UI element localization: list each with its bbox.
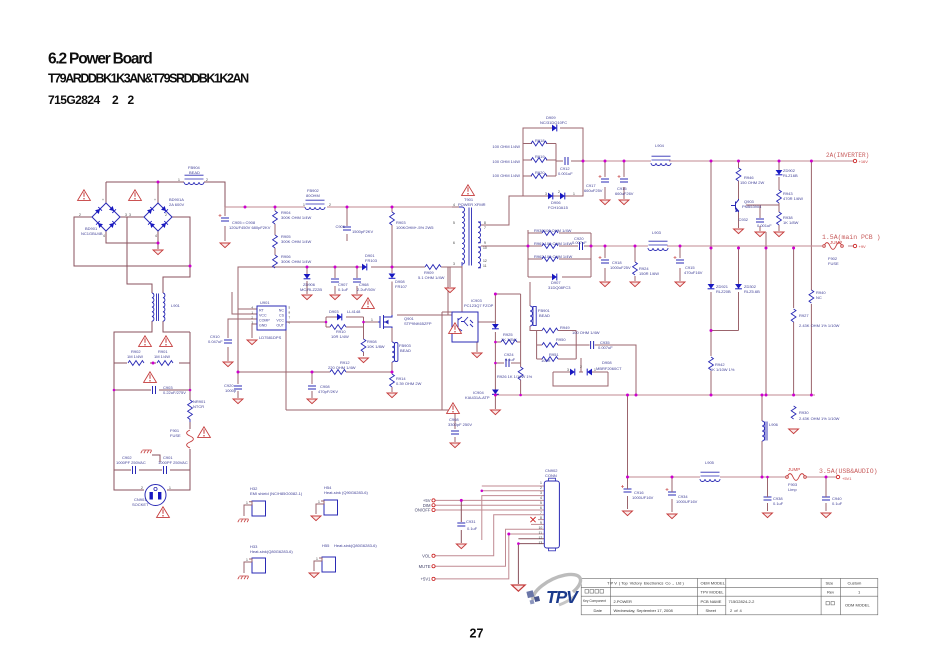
svg-text:2: 2 — [128, 93, 135, 107]
svg-text:220 OHM 1/4W: 220 OHM 1/4W — [328, 365, 356, 370]
svg-text:L901: L901 — [171, 303, 181, 308]
svg-text:TPV: TPV — [546, 587, 579, 607]
svg-text:+16V: +16V — [859, 159, 869, 164]
svg-text:BEAD: BEAD — [400, 348, 411, 353]
svg-text:5: 5 — [453, 221, 455, 225]
svg-text:U901: U901 — [260, 300, 270, 305]
svg-text:JUMP: JUMP — [830, 240, 842, 245]
svg-text:STP9NK65ZFP: STP9NK65ZFP — [404, 321, 432, 326]
svg-text:R950: R950 — [556, 337, 566, 342]
svg-text:ON/OFF: ON/OFF — [415, 508, 431, 513]
svg-text:1000PF 250VAC: 1000PF 250VAC — [158, 460, 188, 465]
svg-text:RLZ20B: RLZ20B — [716, 289, 731, 294]
svg-text:0.1uF: 0.1uF — [773, 501, 784, 506]
svg-text:PCB NAME: PCB NAME — [701, 599, 722, 604]
svg-text:4: 4 — [540, 496, 542, 500]
svg-text:3: 3 — [125, 213, 127, 217]
svg-text:POWER XFMR: POWER XFMR — [458, 202, 486, 207]
svg-text:3: 3 — [129, 213, 131, 217]
svg-text:R930: R930 — [799, 410, 809, 415]
svg-text:FUSE: FUSE — [828, 261, 839, 266]
svg-text:Size: Size — [826, 581, 835, 586]
svg-text:2: 2 — [112, 93, 119, 107]
svg-text:300K OHM 1/4W: 300K OHM 1/4W — [281, 215, 311, 220]
svg-text:FR103: FR103 — [365, 258, 378, 263]
svg-text:Heat-sink (Q90G6283-6): Heat-sink (Q90G6283-6) — [324, 490, 368, 495]
svg-text:4: 4 — [453, 203, 455, 207]
svg-text:T P V ( Top Victory Electronic: T P V ( Top Victory Electronics Co ., Lt… — [607, 581, 685, 586]
svg-text:+: + — [102, 198, 104, 202]
svg-text:T79ARDDBK1K3AN&T79SRDDBK1K2AN: T79ARDDBK1K3AN&T79SRDDBK1K2AN — [48, 72, 249, 86]
svg-text:SOCKET: SOCKET — [132, 502, 149, 507]
svg-text:NC/31DQ10FC: NC/31DQ10FC — [540, 120, 567, 125]
svg-text:1: 1 — [573, 192, 575, 196]
svg-text:1: 1 — [169, 486, 171, 490]
svg-text:6: 6 — [540, 506, 542, 510]
svg-text:100 OHM 1/4W: 100 OHM 1/4W — [572, 330, 600, 335]
svg-text:FUSE: FUSE — [170, 433, 181, 438]
svg-text:3: 3 — [567, 368, 569, 372]
svg-text:2: 2 — [141, 486, 143, 490]
svg-text:Heat-sink(Q80G6283-6): Heat-sink(Q80G6283-6) — [334, 543, 377, 548]
svg-text:Heat-sink(Q80G6283-6): Heat-sink(Q80G6283-6) — [250, 549, 293, 554]
svg-text:150R 1/6W: 150R 1/6W — [639, 271, 659, 276]
svg-text:R938 100 OHM 1/4W: R938 100 OHM 1/4W — [534, 228, 572, 233]
svg-text:2 of 4: 2 of 4 — [730, 608, 743, 613]
svg-text:Rev: Rev — [827, 590, 834, 595]
svg-text:7: 7 — [484, 226, 486, 230]
svg-text:3: 3 — [540, 491, 542, 495]
svg-text:1M 1/4W: 1M 1/4W — [127, 354, 143, 359]
svg-text:2.43K OHM 1% 1/10W: 2.43K OHM 1% 1/10W — [799, 416, 840, 421]
svg-text:10R 1/4W: 10R 1/4W — [331, 334, 349, 339]
svg-text:100KOHM+-5% 2W5: 100KOHM+-5% 2W5 — [396, 225, 434, 230]
svg-text:PC123Q7 FZOP: PC123Q7 FZOP — [464, 303, 494, 308]
svg-text:+5V1: +5V1 — [842, 476, 852, 481]
svg-text:Sheet: Sheet — [706, 608, 717, 613]
svg-text:3300pF 250V: 3300pF 250V — [448, 422, 472, 427]
svg-text:FR107: FR107 — [395, 284, 408, 289]
svg-text:1000UF16V: 1000UF16V — [632, 495, 654, 500]
svg-text:1: 1 — [540, 481, 542, 485]
svg-text:1000uF25V: 1000uF25V — [610, 265, 631, 270]
svg-text:11: 11 — [539, 531, 543, 535]
svg-text:9: 9 — [540, 521, 542, 525]
svg-text:0.1uF: 0.1uF — [832, 501, 843, 506]
svg-text:MBRF2060CT: MBRF2060CT — [596, 366, 622, 371]
svg-text:LL4148: LL4148 — [347, 309, 361, 314]
svg-text:+9V: +9V — [859, 244, 867, 249]
svg-text:C931: C931 — [466, 519, 476, 524]
svg-text:6: 6 — [453, 241, 455, 245]
svg-text:4: 4 — [103, 234, 105, 238]
svg-text:COMP: COMP — [259, 319, 270, 323]
svg-text:100 OHM 1/4W: 100 OHM 1/4W — [492, 173, 520, 178]
svg-text:C906: C906 — [335, 224, 345, 229]
svg-text:2.2uF/50V: 2.2uF/50V — [357, 287, 376, 292]
svg-text:0.047uF: 0.047uF — [208, 339, 223, 344]
svg-text:80OHM: 80OHM — [306, 193, 320, 198]
svg-text:BEAD: BEAD — [539, 313, 550, 318]
svg-text:470uF16V: 470uF16V — [684, 270, 703, 275]
svg-text:5.1 OHM 1/4W: 5.1 OHM 1/4W — [418, 275, 445, 280]
svg-text:BEAD: BEAD — [189, 170, 200, 175]
svg-text:10: 10 — [539, 526, 543, 530]
svg-text:MC/RLZ22B: MC/RLZ22B — [300, 287, 322, 292]
svg-text:RLZ16B: RLZ16B — [783, 173, 798, 178]
svg-text:1000UF16V: 1000UF16V — [676, 499, 698, 504]
svg-text:300K OHM 1/4W: 300K OHM 1/4W — [281, 239, 311, 244]
svg-text:2: 2 — [79, 213, 81, 217]
svg-text:R951: R951 — [549, 352, 559, 357]
svg-text:R949: R949 — [560, 325, 570, 330]
svg-text:660uF25V: 660uF25V — [584, 188, 603, 193]
svg-text:MUTE: MUTE — [419, 564, 431, 569]
svg-text:VCC: VCC — [259, 314, 267, 318]
svg-text:1000PF 250VAC: 1000PF 250VAC — [116, 460, 146, 465]
svg-text:L903: L903 — [652, 230, 662, 235]
svg-text:5: 5 — [540, 501, 542, 505]
svg-text:1K 1/8W: 1K 1/8W — [783, 220, 799, 225]
svg-text:13: 13 — [539, 541, 543, 545]
svg-text:9: 9 — [484, 241, 486, 245]
svg-text:100 OHM 1/4W: 100 OHM 1/4W — [492, 144, 520, 149]
svg-text:OUT: OUT — [276, 324, 284, 328]
svg-text:1: 1 — [178, 178, 180, 182]
svg-text:0.1uF: 0.1uF — [338, 287, 349, 292]
svg-text:NC: NC — [279, 309, 285, 313]
svg-text:ODM MODEL: ODM MODEL — [845, 603, 870, 608]
svg-text:1: 1 — [594, 368, 596, 372]
svg-text:120UF450V 680pF2KV: 120UF450V 680pF2KV — [229, 225, 271, 230]
svg-text:10K 1/8W: 10K 1/8W — [367, 344, 385, 349]
svg-text:1K 1/10W 1%: 1K 1/10W 1% — [710, 367, 735, 372]
svg-text:12: 12 — [539, 536, 543, 540]
svg-text:0.007uF: 0.007uF — [598, 345, 613, 350]
svg-text:D908: D908 — [602, 360, 612, 365]
svg-text:VCC: VCC — [276, 319, 284, 323]
svg-text:3.5A(USB&AUDIO): 3.5A(USB&AUDIO) — [819, 468, 878, 475]
svg-text:1000p: 1000p — [225, 388, 237, 393]
svg-text:NTCR: NTCR — [193, 404, 204, 409]
svg-text:L905: L905 — [705, 460, 715, 465]
svg-text:2: 2 — [558, 190, 560, 194]
svg-text:VOL: VOL — [422, 553, 431, 558]
svg-text:GND: GND — [259, 324, 267, 328]
svg-text:27: 27 — [470, 627, 484, 641]
svg-text:8: 8 — [484, 221, 486, 225]
svg-text:660uF26V: 660uF26V — [615, 191, 634, 196]
svg-text:12: 12 — [483, 259, 487, 263]
svg-text:6.2 Power Board: 6.2 Power Board — [48, 51, 152, 68]
svg-text:470pF/2KV: 470pF/2KV — [318, 389, 338, 394]
svg-text:715G2824: 715G2824 — [48, 93, 101, 107]
svg-text:1: 1 — [303, 203, 305, 207]
svg-text:3: 3 — [545, 192, 547, 196]
svg-text:2: 2 — [206, 178, 208, 182]
svg-text:KIA431A-ATP: KIA431A-ATP — [465, 395, 490, 400]
svg-text:OEM MODEL: OEM MODEL — [701, 581, 726, 586]
svg-text:JUMP: JUMP — [788, 467, 800, 472]
svg-text:Wednesday, September 17, 2008: Wednesday, September 17, 2008 — [614, 608, 674, 613]
svg-text:R918: R918 — [535, 138, 545, 143]
svg-text:Custom: Custom — [848, 581, 862, 586]
svg-text:CONN: CONN — [545, 473, 557, 478]
svg-text:0.001uF: 0.001uF — [558, 171, 573, 176]
svg-text:2A(INVERTER): 2A(INVERTER) — [826, 152, 869, 159]
svg-text:PNB53904: PNB53904 — [742, 204, 762, 209]
svg-text:8: 8 — [540, 516, 542, 520]
svg-text:H55: H55 — [322, 543, 330, 548]
svg-text:1: 1 — [316, 557, 318, 561]
svg-text:2: 2 — [165, 213, 167, 217]
svg-text:2.POWER: 2.POWER — [614, 599, 633, 604]
svg-text:0.007uF: 0.007uF — [572, 240, 587, 245]
svg-text:L906: L906 — [769, 422, 779, 427]
svg-text:RLZ5.6B: RLZ5.6B — [744, 289, 760, 294]
svg-text:FCH10A15: FCH10A15 — [548, 205, 569, 210]
svg-text:1: 1 — [318, 500, 320, 504]
svg-text:1: 1 — [246, 501, 248, 505]
svg-text:Key Component: Key Component — [583, 599, 606, 603]
svg-text:0.1uF: 0.1uF — [467, 526, 478, 531]
svg-text:CS: CS — [279, 314, 285, 318]
svg-text:TPV MODEL: TPV MODEL — [701, 590, 725, 595]
svg-text:470R 1/6W: 470R 1/6W — [783, 196, 803, 201]
svg-text:2.43K OHM 1% 1/10W: 2.43K OHM 1% 1/10W — [799, 323, 840, 328]
svg-text:100R: 100R — [541, 358, 551, 363]
svg-text:1: 1 — [371, 318, 373, 322]
svg-text:300K OHM 1/4W: 300K OHM 1/4W — [281, 259, 311, 264]
svg-text:R919: R919 — [535, 154, 545, 159]
svg-text:1M 1/4W: 1M 1/4W — [154, 354, 170, 359]
svg-text:R961 100 OHM 1/4W: R961 100 OHM 1/4W — [534, 241, 572, 246]
svg-text:11: 11 — [483, 264, 487, 268]
svg-text:+5V1: +5V1 — [421, 577, 432, 582]
svg-text:R926 1K 1/10W 1%: R926 1K 1/10W 1% — [497, 374, 533, 379]
svg-text:2: 2 — [540, 486, 542, 490]
svg-text:Limp: Limp — [788, 487, 797, 492]
svg-text:D903: D903 — [329, 309, 339, 314]
svg-text:0.001uF: 0.001uF — [757, 223, 772, 228]
svg-text:100 OHM 1/4W: 100 OHM 1/4W — [492, 159, 520, 164]
svg-text:1K 1/8W: 1K 1/8W — [501, 337, 517, 342]
svg-text:C932: C932 — [738, 217, 748, 222]
svg-text:EMI shield (NC/H85G0082-1): EMI shield (NC/H85G0082-1) — [250, 491, 303, 496]
svg-text:2: 2 — [329, 203, 331, 207]
svg-text:Date: Date — [594, 608, 603, 613]
svg-text:0.1uF: 0.1uF — [505, 357, 516, 362]
svg-text:NC: NC — [816, 295, 822, 300]
svg-text:R962 100 OHM 1/4W: R962 100 OHM 1/4W — [534, 254, 572, 259]
svg-text:4: 4 — [155, 234, 157, 238]
svg-text:L904: L904 — [655, 143, 665, 148]
svg-text:2: 2 — [580, 365, 582, 369]
svg-text:LD7581DPS: LD7581DPS — [259, 335, 282, 340]
svg-text:R920: R920 — [535, 170, 545, 175]
svg-text:7: 7 — [540, 511, 542, 515]
svg-text:715G2824-2-2: 715G2824-2-2 — [729, 599, 756, 604]
svg-text:150 OHM 2W: 150 OHM 2W — [740, 180, 764, 185]
svg-text:1500pF2KV: 1500pF2KV — [352, 229, 373, 234]
svg-text:10: 10 — [483, 246, 487, 250]
svg-text:0.22uF/275V: 0.22uF/275V — [163, 390, 186, 395]
svg-text:3: 3 — [453, 262, 455, 266]
svg-text:RT: RT — [259, 309, 265, 313]
svg-text:+: + — [154, 198, 156, 202]
svg-text:R927: R927 — [799, 313, 809, 318]
svg-text:31DQ08FC3: 31DQ08FC3 — [548, 285, 571, 290]
svg-text:2A 600V: 2A 600V — [169, 202, 184, 207]
svg-text:1: 1 — [246, 558, 248, 562]
svg-text:0.39 OHM 2W: 0.39 OHM 2W — [396, 381, 422, 386]
svg-text:NC1GBU4B: NC1GBU4B — [81, 231, 103, 236]
